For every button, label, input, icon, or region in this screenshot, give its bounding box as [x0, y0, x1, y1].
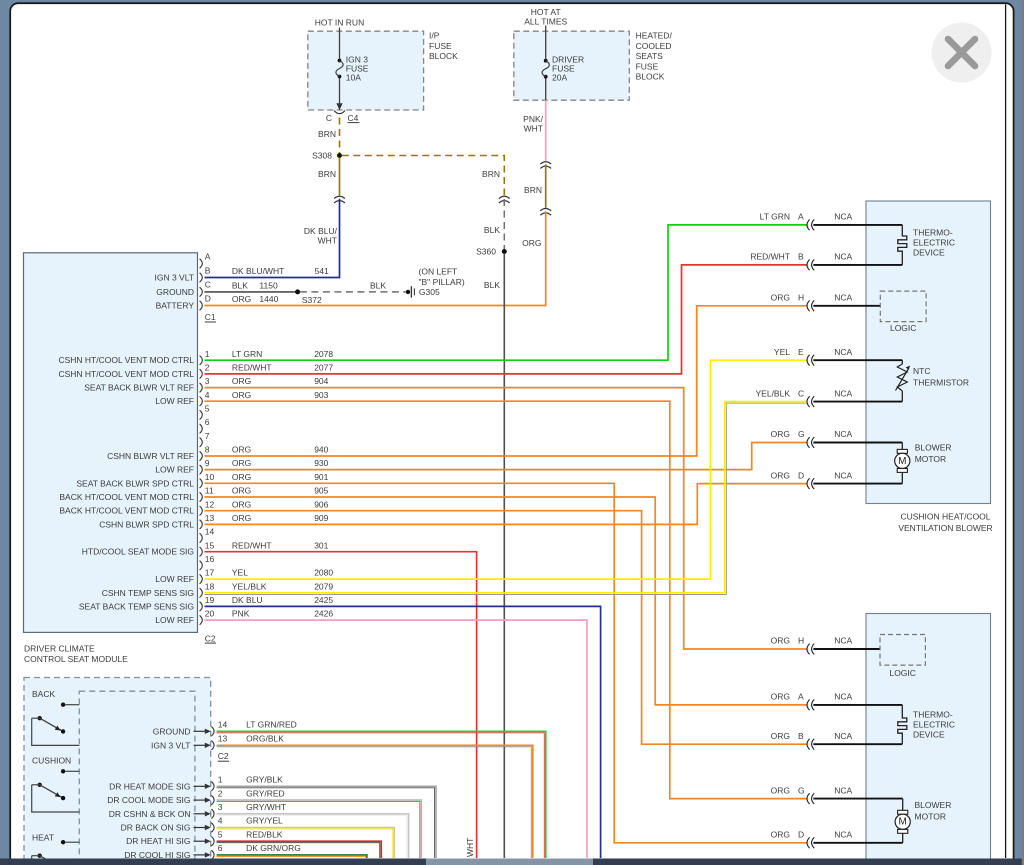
svg-text:BATTERY: BATTERY [156, 301, 195, 311]
right window edge strip [1022, 0, 1024, 865]
wire RED/WHT 301 pin 15 down [205, 552, 477, 858]
svg-text:H: H [798, 293, 804, 303]
svg-text:2: 2 [205, 363, 210, 373]
wire GRY/YEL pin 4 down [217, 828, 395, 859]
svg-text:ORG: ORG [232, 486, 251, 496]
svg-text:12: 12 [205, 499, 215, 509]
svg-text:RED/WHT: RED/WHT [232, 363, 272, 373]
svg-text:"B" PILLAR): "B" PILLAR) [419, 277, 465, 287]
svg-text:301: 301 [314, 540, 328, 550]
svg-text:DR COOL HI SIG: DR COOL HI SIG [124, 850, 190, 860]
connector H cushion blower NCA [807, 300, 810, 311]
svg-text:CONTROL SEAT MODULE: CONTROL SEAT MODULE [24, 654, 128, 664]
NTC thermistor RT1 [897, 364, 907, 391]
svg-text:HEAT: HEAT [32, 833, 54, 843]
svg-text:ORG: ORG [232, 445, 251, 455]
splice S372 [295, 289, 300, 294]
svg-text:PNK/: PNK/ [523, 114, 543, 124]
wire PNK/WHT from fuse block [545, 100, 547, 161]
module pin 8 C2 CSHN BLWR VLT REF [200, 451, 203, 460]
svg-text:ORG: ORG [232, 499, 251, 509]
svg-text:DK BLU/WHT: DK BLU/WHT [232, 266, 284, 276]
svg-text:BLOWER: BLOWER [915, 800, 952, 810]
wire HOT AT ALL TIMES feed [545, 26, 547, 59]
module pin 6 C2 [200, 424, 203, 433]
svg-text:NCA: NCA [834, 470, 852, 480]
inline connector break below BRN [540, 209, 551, 211]
svg-text:3: 3 [205, 376, 210, 386]
svg-text:NCA: NCA [834, 636, 852, 646]
svg-text:PNK: PNK [232, 609, 250, 619]
svg-text:ORG: ORG [522, 238, 541, 248]
svg-text:905: 905 [314, 486, 328, 496]
svg-text:ORG: ORG [771, 692, 790, 702]
svg-text:FUSE: FUSE [429, 41, 452, 51]
svg-text:NCA: NCA [834, 212, 852, 222]
svg-text:BLK: BLK [232, 281, 248, 291]
svg-text:SEAT BACK TEMP SENS SIG: SEAT BACK TEMP SENS SIG [79, 601, 194, 611]
schematic right border frame line [1005, 5, 1007, 859]
svg-text:DR HEAT HI SIG: DR HEAT HI SIG [126, 836, 190, 846]
svg-text:BACK HT/COOL VENT MOD CTRL: BACK HT/COOL VENT MOD CTRL [59, 506, 194, 516]
svg-text:2: 2 [218, 788, 223, 798]
svg-text:WHT: WHT [318, 236, 337, 246]
svg-text:LOW REF: LOW REF [155, 574, 194, 584]
wire RED/BLK pin 5 down [217, 841, 382, 858]
svg-text:C1: C1 [205, 312, 216, 322]
wire NCA pin H2 to logic [813, 648, 880, 650]
svg-text:GROUND: GROUND [153, 726, 191, 736]
svg-text:BRN: BRN [482, 169, 500, 179]
svg-text:MOTOR: MOTOR [915, 454, 946, 464]
svg-text:7: 7 [205, 431, 210, 441]
svg-text:ORG: ORG [771, 731, 790, 741]
svg-text:DRIVER CLIMATE: DRIVER CLIMATE [24, 643, 95, 653]
svg-text:MOTOR: MOTOR [915, 811, 946, 821]
svg-text:COOLED: COOLED [636, 41, 672, 51]
wire BLK dashed S372 to G305 [300, 291, 406, 293]
svg-text:D: D [205, 293, 211, 303]
svg-text:NCA: NCA [834, 429, 852, 439]
svg-text:DK BLU: DK BLU [232, 595, 263, 605]
svg-text:BLOCK: BLOCK [429, 51, 458, 61]
svg-text:HOT IN RUN: HOT IN RUN [315, 18, 364, 28]
svg-text:GRY/RED: GRY/RED [246, 788, 285, 798]
module pin 20 C2 LOW REF [200, 615, 203, 624]
svg-text:G: G [798, 785, 805, 795]
svg-text:DEVICE: DEVICE [913, 730, 945, 740]
svg-text:909: 909 [314, 513, 328, 523]
svg-text:LOW REF: LOW REF [155, 396, 194, 406]
connector H back blower NCA [807, 644, 810, 655]
svg-text:CSHN HT/COOL VENT MOD CTRL: CSHN HT/COOL VENT MOD CTRL [58, 355, 194, 365]
wire ORG 905 pin 11 to back blower A [205, 497, 807, 705]
wire DK BLU 2425 pin 19 down [205, 606, 601, 858]
svg-text:DR COOL MODE SIG: DR COOL MODE SIG [107, 795, 190, 805]
svg-text:VENTILATION BLOWER: VENTILATION BLOWER [898, 523, 992, 533]
svg-text:14: 14 [205, 527, 215, 537]
svg-text:YEL/BLK: YEL/BLK [756, 388, 791, 398]
svg-text:BLK: BLK [484, 225, 500, 235]
svg-text:CSHN TEMP SENS SIG: CSHN TEMP SENS SIG [102, 588, 194, 598]
svg-text:YEL: YEL [774, 347, 790, 357]
wire NCA pin A into box [813, 224, 902, 226]
connector D cushion blower NCA [807, 478, 810, 489]
module pin 15 C2 HTD/COOL SEAT MODE SIG [200, 547, 203, 556]
fuse block box HEATED/COOLED SEATS FUSE BLOCK [514, 31, 630, 100]
module pin 9 C2 LOW REF [200, 465, 203, 474]
module pin B C1 IGN 3 VLT [200, 273, 203, 282]
svg-text:A: A [205, 251, 211, 261]
svg-text:HOT AT: HOT AT [531, 7, 561, 17]
svg-text:901: 901 [314, 472, 328, 482]
wire HOT IN RUN feed into fuse [339, 28, 341, 59]
svg-text:SEAT BACK BLWR VLT REF: SEAT BACK BLWR VLT REF [84, 383, 194, 393]
wire ORG 906 pin 12 to back blower B [205, 511, 807, 745]
svg-text:C: C [798, 388, 804, 398]
svg-text:C2: C2 [205, 633, 216, 643]
module pin 11 C2 BACK HT/COOL VENT MOD CTRL [200, 492, 203, 501]
svg-text:IGN 3 VLT: IGN 3 VLT [154, 273, 194, 283]
svg-text:904: 904 [314, 376, 328, 386]
svg-text:S308: S308 [312, 151, 332, 161]
svg-text:NCA: NCA [834, 731, 852, 741]
wire ORG 909 pin 13 to blower D [205, 484, 807, 525]
svg-text:E: E [798, 347, 804, 357]
svg-text:2077: 2077 [314, 363, 333, 373]
fuse IGN 3 FUSE 10A [338, 59, 342, 63]
svg-text:903: 903 [314, 390, 328, 400]
wire NCA pin B into box [813, 264, 902, 266]
svg-text:1440: 1440 [259, 294, 278, 304]
svg-text:NTC: NTC [913, 366, 930, 376]
wire ORG 903 pin 4 to back blower G [205, 401, 807, 798]
connector D back blower NCA [807, 837, 810, 848]
svg-text:NCA: NCA [834, 347, 852, 357]
svg-text:LOW REF: LOW REF [155, 615, 194, 625]
module pin 2 C2 CSHN HT/COOL VENT MOD CTRL [200, 369, 203, 378]
svg-text:BACK HT/COOL VENT MOD CTRL: BACK HT/COOL VENT MOD CTRL [59, 492, 194, 502]
svg-text:ORG: ORG [771, 830, 790, 840]
svg-text:6: 6 [205, 417, 210, 427]
svg-text:B: B [798, 252, 804, 262]
connector A cushion blower NCA [807, 220, 810, 231]
svg-text:YEL/BLK: YEL/BLK [232, 581, 267, 591]
wire RED/WHT 2077 pin 2 to blower B [205, 265, 807, 374]
svg-text:YEL: YEL [232, 568, 248, 578]
splice S308 [337, 153, 342, 158]
logic box 2 [880, 635, 925, 666]
connector C cushion blower NCA [807, 396, 810, 407]
svg-text:THERMO-: THERMO- [913, 710, 953, 720]
svg-text:LOW REF: LOW REF [155, 465, 194, 475]
close button [932, 23, 992, 83]
logic box 1 [880, 291, 926, 322]
wire LT GRN/RED pin 14 down [217, 731, 546, 858]
svg-text:10: 10 [205, 472, 215, 482]
svg-text:9: 9 [205, 458, 210, 468]
wire DK BLU/WHT 541 to pin B [205, 199, 340, 278]
svg-text:BRN: BRN [524, 185, 542, 195]
svg-text:541: 541 [315, 266, 329, 276]
svg-text:DR CSHN & BCK ON: DR CSHN & BCK ON [109, 809, 191, 819]
wire GRY/WHT pin 3 down [217, 814, 409, 858]
svg-text:2080: 2080 [314, 568, 333, 578]
wire ORG 904 pin 3 to back blower H [205, 388, 807, 649]
svg-text:LT GRN: LT GRN [232, 349, 262, 359]
svg-text:THERMISTOR: THERMISTOR [913, 378, 969, 388]
wire NCA pin H to logic [813, 305, 880, 307]
wire ORG/BLK pin 13 down [217, 745, 533, 858]
wire ORG 901 pin 10 to back blower D [205, 483, 807, 843]
wire PNK 2426 pin 20 down [205, 620, 588, 858]
svg-text:GRY/BLK: GRY/BLK [246, 775, 283, 785]
module pin 1 C2 CSHN HT/COOL VENT MOD CTRL [200, 356, 203, 365]
svg-text:ORG: ORG [771, 470, 790, 480]
svg-text:13: 13 [205, 513, 215, 523]
wire BLK 1150 pin C to S372 [205, 291, 298, 293]
svg-text:B: B [798, 731, 804, 741]
svg-text:BLK: BLK [484, 280, 500, 290]
svg-text:C2: C2 [218, 751, 229, 761]
connector A back blower NCA [807, 700, 810, 711]
connector B back blower NCA [807, 739, 810, 750]
svg-text:BLOWER: BLOWER [915, 443, 952, 453]
svg-text:H: H [798, 636, 804, 646]
svg-text:2426: 2426 [314, 609, 333, 619]
svg-text:19: 19 [205, 595, 215, 605]
svg-text:2078: 2078 [314, 349, 333, 359]
svg-text:D: D [798, 830, 804, 840]
svg-text:906: 906 [314, 499, 328, 509]
connector E cushion blower NCA [807, 355, 810, 366]
svg-text:S372: S372 [302, 295, 322, 305]
svg-text:BLK: BLK [370, 280, 386, 290]
svg-text:M: M [898, 456, 906, 467]
svg-text:DR HEAT MODE SIG: DR HEAT MODE SIG [109, 781, 190, 791]
stripe BLK on YEL/BLK wire [205, 403, 807, 594]
wire BLK dashed to S360 [503, 199, 505, 249]
svg-text:ALL TIMES: ALL TIMES [524, 17, 567, 27]
svg-text:ORG: ORG [771, 636, 790, 646]
wire YEL 2080 pin 17 to blower E [205, 360, 807, 579]
inline connector break left BRN/DKBLU [334, 196, 345, 198]
svg-text:S360: S360 [476, 247, 496, 257]
svg-text:WHT: WHT [465, 838, 475, 857]
wire YEL/BLK 2079 pin 18 to blower C [205, 402, 807, 593]
svg-text:ORG: ORG [232, 376, 251, 386]
svg-text:17: 17 [205, 568, 215, 578]
wire BRN dashed C4 to S308 [339, 118, 341, 154]
svg-text:THERMO-: THERMO- [913, 228, 953, 238]
connector C4 cup symbol [334, 111, 345, 114]
svg-text:2425: 2425 [314, 595, 333, 605]
wire NCA pin E into box [813, 359, 902, 361]
module pin 13 C2 CSHN BLWR SPD CTRL [200, 520, 203, 529]
wire ORG 940 pin 8 to blower H [205, 306, 807, 456]
wire DK GRN/ORG pin 6 down [217, 855, 367, 858]
thermo-electric device U1a [898, 225, 907, 265]
svg-text:RED/WHT: RED/WHT [232, 540, 272, 550]
svg-text:GROUND: GROUND [156, 287, 194, 297]
wire BRN solid below S308 [339, 158, 341, 196]
svg-text:15: 15 [205, 540, 215, 550]
horizontal scrollbar track [0, 859, 1024, 865]
svg-text:RED/BLK: RED/BLK [246, 829, 283, 839]
svg-text:C4: C4 [348, 113, 359, 123]
wire NTC to pin C [901, 391, 903, 402]
svg-text:LOGIC: LOGIC [889, 668, 915, 678]
module pin A C1 [200, 259, 203, 268]
wire BLK solid S360 down [503, 254, 505, 858]
svg-text:GRY/YEL: GRY/YEL [246, 816, 283, 826]
svg-text:NCA: NCA [834, 252, 852, 262]
svg-text:D: D [798, 470, 804, 480]
svg-text:940: 940 [314, 445, 328, 455]
svg-text:ELECTRIC: ELECTRIC [913, 238, 955, 248]
svg-text:930: 930 [314, 458, 328, 468]
wire ORG 1440 battery feed to pin D [205, 211, 546, 305]
svg-text:3: 3 [218, 802, 223, 812]
svg-text:NCA: NCA [834, 692, 852, 702]
horizontal scrollbar thumb [426, 859, 593, 865]
svg-text:ORG/BLK: ORG/BLK [246, 734, 284, 744]
wire LT GRN 2078 pin 1 to blower A [205, 225, 807, 360]
svg-text:6: 6 [218, 843, 223, 853]
wire BRN dashed S308 to right branch [342, 156, 505, 196]
svg-text:1: 1 [218, 775, 223, 785]
svg-text:SEAT BACK BLWR SPD CTRL: SEAT BACK BLWR SPD CTRL [76, 478, 194, 488]
svg-text:18: 18 [205, 581, 215, 591]
module box DRIVER CLIMATE CONTROL SEAT MODULE [24, 253, 198, 633]
splice S360 [502, 249, 507, 254]
svg-text:ORG: ORG [232, 513, 251, 523]
svg-text:LT GRN/RED: LT GRN/RED [246, 720, 297, 730]
svg-text:ORG: ORG [232, 390, 251, 400]
thermo-electric device U2a [898, 705, 907, 744]
svg-text:LOGIC: LOGIC [890, 323, 916, 333]
svg-text:2079: 2079 [314, 581, 333, 591]
blower motor M2 [898, 810, 908, 814]
module pin 10 C2 SEAT BACK BLWR SPD CTRL [200, 479, 203, 488]
svg-text:BLOCK: BLOCK [636, 72, 665, 82]
svg-text:ORG: ORG [232, 294, 251, 304]
module pin 7 C2 [200, 438, 203, 447]
svg-text:10A: 10A [346, 72, 361, 82]
svg-text:CUSHION HEAT/COOL: CUSHION HEAT/COOL [900, 512, 990, 522]
svg-text:G305: G305 [419, 287, 440, 297]
wire NCA pin B2 into box [813, 743, 902, 745]
module pin 14 C2 [200, 533, 203, 542]
svg-text:16: 16 [205, 554, 215, 564]
module pin 16 C2 [200, 561, 203, 570]
svg-text:NCA: NCA [834, 830, 852, 840]
svg-text:(ON LEFT: (ON LEFT [419, 267, 458, 277]
svg-text:ELECTRIC: ELECTRIC [913, 720, 955, 730]
svg-text:4: 4 [205, 390, 210, 400]
svg-text:CUSHION: CUSHION [32, 756, 71, 766]
svg-text:13: 13 [218, 734, 228, 744]
svg-text:A: A [798, 212, 804, 222]
svg-text:LT GRN: LT GRN [760, 212, 790, 222]
module pin 17 C2 LOW REF [200, 574, 203, 583]
svg-text:CSHN BLWR VLT REF: CSHN BLWR VLT REF [107, 451, 194, 461]
svg-text:DK BLU/: DK BLU/ [304, 226, 338, 236]
svg-text:ORG: ORG [232, 458, 251, 468]
svg-text:B: B [205, 265, 211, 275]
svg-text:ORG: ORG [771, 429, 790, 439]
svg-text:RED/WHT: RED/WHT [750, 252, 790, 262]
svg-text:5: 5 [205, 404, 210, 414]
switch module inner dashed box [79, 691, 195, 865]
svg-text:C: C [326, 113, 332, 123]
svg-text:CSHN BLWR SPD CTRL: CSHN BLWR SPD CTRL [99, 519, 194, 529]
wire BRN jumper [545, 164, 547, 208]
svg-text:HTD/COOL SEAT MODE SIG: HTD/COOL SEAT MODE SIG [82, 547, 194, 557]
svg-text:FUSE: FUSE [636, 61, 659, 71]
fuse block box I/P FUSE BLOCK [308, 31, 424, 110]
svg-text:GRY/WHT: GRY/WHT [246, 802, 286, 812]
component box back heat/cool ventilation blower [866, 614, 991, 861]
svg-text:C: C [205, 280, 211, 290]
svg-text:ORG: ORG [232, 472, 251, 482]
blower motor M1 [897, 449, 907, 453]
svg-text:IGN 3 VLT: IGN 3 VLT [151, 740, 191, 750]
svg-text:ORG: ORG [771, 785, 790, 795]
wire motor2 to pin D2 [902, 833, 904, 843]
svg-text:BACK: BACK [32, 689, 55, 699]
wire NCA pin G into box [813, 442, 902, 444]
module pin 19 C2 SEAT BACK TEMP SENS SIG [200, 602, 203, 611]
svg-text:1150: 1150 [259, 281, 278, 291]
svg-text:NCA: NCA [834, 293, 852, 303]
svg-text:SEATS: SEATS [636, 51, 664, 61]
module pin 5 C2 [200, 410, 203, 419]
svg-text:BRN: BRN [318, 129, 336, 139]
svg-text:5: 5 [218, 829, 223, 839]
ground G305 [406, 290, 410, 294]
svg-text:DEVICE: DEVICE [913, 248, 945, 258]
svg-text:ORG: ORG [771, 293, 790, 303]
inline connector break right BRN/BLK [499, 196, 510, 198]
svg-text:DR BACK ON SIG: DR BACK ON SIG [121, 823, 191, 833]
svg-text:NCA: NCA [834, 388, 852, 398]
wire ORG 930 pin 9 to blower G [205, 443, 807, 470]
svg-text:M: M [899, 817, 907, 828]
svg-text:WHT: WHT [524, 124, 543, 134]
svg-text:14: 14 [218, 720, 228, 730]
wire NCA pin A2 into box [813, 704, 902, 706]
wire NCA pin G2 into box [813, 798, 902, 800]
wire GRY/RED pin 2 down [217, 800, 422, 858]
module pin 18 C2 CSHN TEMP SENS SIG [200, 588, 203, 597]
svg-text:HEATED/: HEATED/ [636, 31, 673, 41]
connector B cushion blower NCA [807, 260, 810, 271]
svg-text:NCA: NCA [834, 785, 852, 795]
connector G cushion blower NCA [807, 437, 810, 448]
svg-text:I/P: I/P [429, 31, 440, 41]
wire motor to pin D [901, 472, 903, 483]
module pin C C1 GROUND [200, 287, 203, 296]
svg-text:A: A [798, 692, 804, 702]
component box CUSHION HEAT/COOL VENTILATION BLOWER [866, 201, 991, 504]
module pin 3 C2 SEAT BACK BLWR VLT REF [200, 383, 203, 392]
svg-text:11: 11 [205, 486, 214, 496]
svg-text:20: 20 [205, 609, 215, 619]
module pin 4 C2 LOW REF [200, 397, 203, 406]
module pin 12 C2 BACK HT/COOL VENT MOD CTRL [200, 506, 203, 515]
wire GRY/BLK pin 1 down [217, 786, 436, 858]
